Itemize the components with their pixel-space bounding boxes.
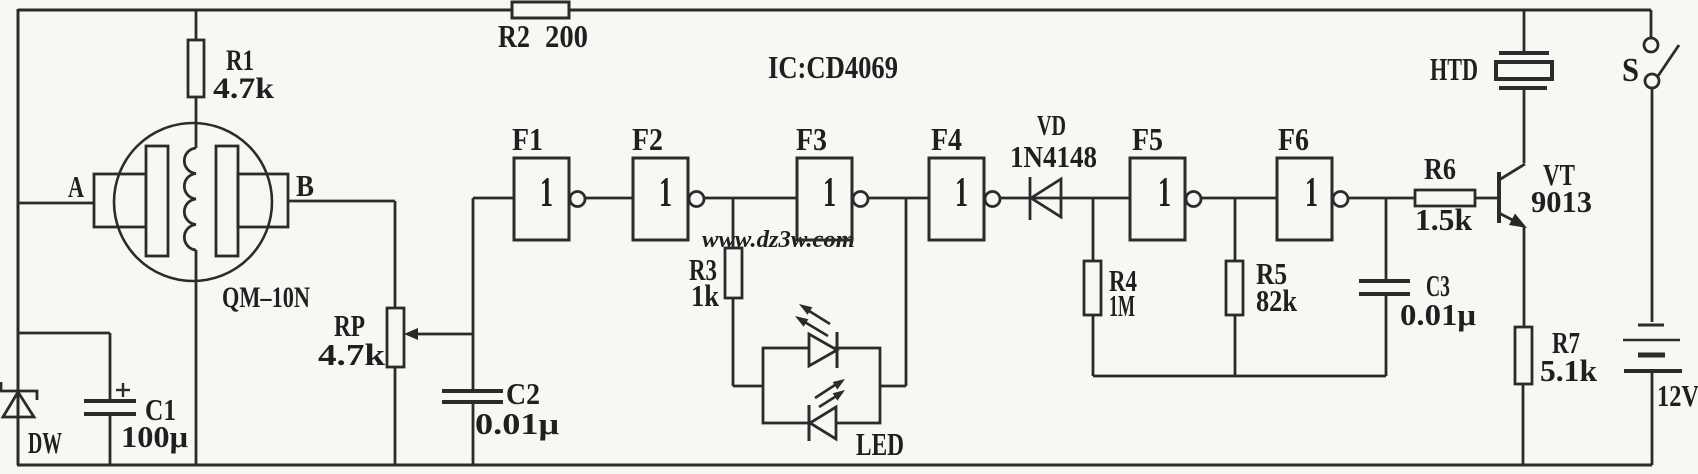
buzzer HTD: [1430, 10, 1552, 88]
LED pair: [763, 198, 906, 462]
resistor R4: [1084, 198, 1137, 376]
sensor right terminal box: [238, 174, 288, 227]
zener diode DW: [1, 382, 62, 460]
LED D2: [810, 407, 836, 439]
svg-text:1: 1: [1305, 170, 1318, 216]
sensor left electrode: [146, 146, 168, 256]
svg-text:9013: 9013: [1531, 184, 1592, 219]
potentiometer RP: [318, 201, 473, 465]
capacitor C2: [442, 198, 559, 465]
svg-text:F3: F3: [796, 121, 827, 157]
inverter F5: [1130, 121, 1201, 240]
svg-text:R2: R2: [498, 18, 530, 54]
inverter F2: [632, 121, 704, 240]
svg-text:R6: R6: [1424, 151, 1456, 186]
sensor heater coil: [184, 148, 196, 250]
svg-text:1: 1: [1158, 170, 1171, 216]
wire F6 to R6: [1348, 197, 1415, 200]
capacitor C3: [1359, 198, 1476, 376]
inverter F3: [796, 121, 868, 240]
svg-text:1: 1: [823, 170, 836, 216]
wire C2 node to F1 input: [473, 197, 514, 200]
svg-text:F6: F6: [1278, 121, 1309, 157]
wire node A: [18, 202, 94, 205]
sensor right electrode: [216, 146, 238, 256]
resistor R6: [1415, 151, 1499, 237]
resistor R3: [689, 198, 763, 386]
wire F5 to F6: [1201, 197, 1277, 200]
svg-text:F5: F5: [1132, 121, 1163, 157]
svg-text:IC:CD4069: IC:CD4069: [768, 49, 898, 85]
wire top border: [18, 9, 1651, 12]
svg-text:82k: 82k: [1256, 283, 1298, 318]
diode VD 1N4148: [1010, 110, 1097, 220]
svg-text:1: 1: [955, 170, 968, 216]
svg-text:4.7k: 4.7k: [213, 72, 274, 105]
resistor R2: [498, 2, 588, 54]
inverter F6: [1277, 121, 1348, 240]
transistor VT 9013: [1499, 90, 1592, 327]
battery 12V: [1623, 325, 1698, 465]
inverter F4: [929, 121, 1000, 240]
svg-text:100μ: 100μ: [121, 419, 188, 454]
capacitor C1: [18, 333, 188, 465]
resistor R5: [1226, 198, 1298, 376]
wire left border: [17, 9, 20, 465]
svg-text:200: 200: [545, 18, 588, 54]
inverter F1: [512, 121, 585, 240]
resistor R1: [188, 10, 274, 148]
svg-text:F2: F2: [632, 121, 663, 157]
svg-text:QM–10N: QM–10N: [222, 281, 310, 314]
wire F3 to F4: [868, 197, 929, 200]
svg-text:1: 1: [540, 170, 553, 216]
svg-text:1.5k: 1.5k: [1415, 202, 1473, 237]
svg-text:HTD: HTD: [1430, 51, 1478, 87]
svg-text:4.7k: 4.7k: [318, 337, 386, 372]
wire F2 to F3: [704, 197, 797, 200]
svg-text:S: S: [1622, 52, 1639, 89]
svg-text:F1: F1: [512, 121, 543, 157]
svg-text:1: 1: [659, 170, 672, 216]
svg-text:0.01μ: 0.01μ: [475, 406, 559, 441]
svg-text:LED: LED: [856, 426, 904, 462]
wire node B: [288, 200, 395, 203]
switch S: [1622, 10, 1679, 322]
svg-text:VD: VD: [1037, 110, 1066, 142]
svg-text:1N4148: 1N4148: [1010, 139, 1097, 174]
gas sensor QM-10N: [18, 123, 395, 465]
wire LED to F3-F4 net: [880, 385, 906, 388]
wire bottom border: [17, 464, 1652, 467]
LED D1: [809, 334, 837, 366]
svg-text:B: B: [296, 168, 314, 203]
svg-text:1k: 1k: [691, 278, 720, 313]
svg-text:A: A: [68, 169, 84, 204]
svg-text:DW: DW: [28, 425, 62, 460]
svg-text:0.01μ: 0.01μ: [1400, 297, 1476, 332]
svg-text:12V: 12V: [1657, 378, 1698, 413]
wire F1 to F2: [585, 197, 633, 200]
wire sensor center to bottom: [195, 250, 198, 465]
svg-text:5.1k: 5.1k: [1540, 353, 1598, 388]
sensor envelope circle: [114, 123, 272, 281]
sensor left terminal box: [94, 174, 146, 227]
resistor R7: [1515, 325, 1598, 465]
wire bottom rail R4-R5-C3: [1093, 375, 1386, 378]
svg-text:F4: F4: [931, 121, 962, 157]
svg-text:1M: 1M: [1109, 288, 1135, 323]
wire F4 to diode VD: [1000, 197, 1130, 200]
